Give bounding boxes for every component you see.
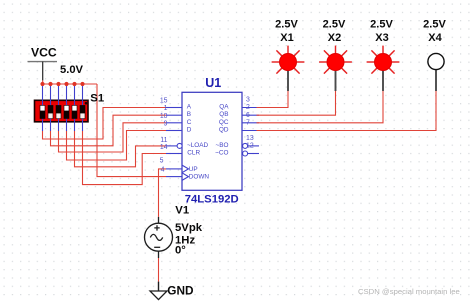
wire VCC symbol to bus (42, 80, 44, 84)
wire VCC bus (43, 83, 98, 85)
svg-text:UP: UP (189, 166, 198, 173)
junction dot col2 on VCC bus (48, 82, 52, 86)
svg-text:2: 2 (246, 104, 250, 111)
svg-text:2.5V: 2.5V (275, 18, 298, 30)
switch S1 pin lead 6 (82, 86, 84, 131)
svg-text:74LS192D: 74LS192D (185, 193, 239, 205)
U1 right pin stub ~BO (248, 145, 259, 147)
~CO output bubble (243, 151, 248, 156)
wire switch col3 to pin C (59, 123, 167, 152)
svg-text:CSDN @special mountain lee: CSDN @special mountain lee (358, 287, 460, 296)
svg-text:CLR: CLR (187, 150, 200, 157)
svg-text:5Vpk: 5Vpk (175, 222, 203, 234)
counter chip U1 body (182, 92, 242, 190)
svg-text:2.5V: 2.5V (423, 18, 446, 30)
source V1 (145, 217, 173, 258)
svg-text:10: 10 (160, 113, 168, 120)
U1 right pin stub QD (242, 130, 259, 132)
svg-text:~CO: ~CO (215, 150, 228, 157)
junction dot col5 on VCC bus (72, 82, 76, 86)
probe X4 (423, 18, 446, 91)
svg-text:4: 4 (161, 166, 165, 173)
probe X2 (319, 18, 352, 91)
wire switch col1 to pin A (43, 108, 167, 140)
~BO output bubble (243, 143, 248, 148)
wire V1 to UP pin (159, 169, 167, 217)
svg-text:7: 7 (246, 120, 250, 127)
svg-text:~BO: ~BO (216, 142, 229, 149)
svg-text:A: A (187, 104, 192, 111)
switch S1 body (35, 100, 89, 122)
svg-text:X3: X3 (375, 32, 388, 44)
svg-text:11: 11 (160, 137, 167, 144)
probe X3 lead (382, 70, 384, 91)
svg-text:5: 5 (160, 157, 164, 164)
switch S1 pin lead 3 (58, 86, 60, 131)
switch S1 pin lead 5 (74, 86, 76, 131)
probe X3 glow rays (367, 46, 400, 74)
U1 right pin stub ~CO (248, 153, 259, 155)
svg-text:12: 12 (246, 143, 254, 150)
svg-text:X4: X4 (428, 32, 442, 44)
probe X3 (367, 18, 400, 91)
DOWN clock arrow (182, 173, 189, 181)
svg-text:V1: V1 (175, 204, 189, 216)
svg-text:2.5V: 2.5V (370, 18, 393, 30)
svg-text:15: 15 (160, 98, 168, 105)
svg-text:2.5V: 2.5V (323, 18, 346, 30)
U1 left pin stub UP (166, 168, 182, 170)
svg-text:GND: GND (167, 283, 194, 297)
switch S1 pin lead 2 (50, 86, 52, 131)
wire QB to probe X2 (257, 91, 336, 116)
svg-text:1: 1 (164, 105, 168, 112)
svg-text:D: D (187, 127, 192, 134)
switch S1 indicator dot (85, 102, 88, 105)
switch S1 slot 1 (40, 105, 46, 119)
junction dot col4 on VCC bus (64, 82, 68, 86)
wire QD to probe X4 (257, 91, 437, 131)
power symbol VCC (28, 46, 58, 81)
U1 right pin stub QA (242, 107, 259, 109)
svg-text:S1: S1 (90, 93, 104, 105)
svg-text:QB: QB (219, 111, 228, 118)
switch S1 slot 4 (64, 105, 70, 119)
svg-text:QC: QC (219, 119, 229, 126)
svg-text:14: 14 (160, 144, 168, 151)
probe X2 lead (335, 70, 337, 91)
svg-text:~LOAD: ~LOAD (187, 142, 209, 149)
switch S1 slot 2 (48, 105, 54, 119)
U1 left pin stub ~LOAD (166, 145, 177, 147)
svg-text:0°: 0° (175, 244, 186, 256)
probe X1 lead (287, 70, 289, 91)
U1 right pin stub QC (242, 122, 259, 124)
svg-text:QA: QA (219, 104, 229, 111)
switch S1 pin lead 4 (66, 86, 68, 131)
ground (158, 282, 160, 291)
U1 right pin stub QB (242, 114, 259, 116)
svg-text:X2: X2 (328, 32, 341, 44)
probe X4 lamp (off) (428, 53, 444, 69)
svg-text:X1: X1 (280, 32, 293, 44)
junction dot col1 on VCC bus (40, 82, 44, 86)
wire switch col4 to pin D (67, 131, 167, 161)
svg-text:6: 6 (246, 112, 250, 119)
wire VCC bus to DOWN pin (97, 84, 166, 177)
UP clock arrow (182, 165, 189, 173)
probe X1 (272, 18, 305, 91)
probe X1 glow rays (272, 46, 305, 74)
junction dot col3 on VCC bus (56, 82, 60, 86)
wire switch col5 to ~LOAD pin (75, 131, 167, 167)
U1 left pin stub D (166, 130, 182, 132)
wire switch col6 to CLR pin (83, 131, 167, 185)
junction dot col6 on VCC bus (80, 82, 84, 86)
switch S1 slot 5 (72, 105, 78, 119)
probe X3 lamp (lit) (375, 54, 392, 71)
U1 left pin stub B (166, 114, 182, 116)
switch S1 pin lead 1 (42, 86, 44, 131)
probe X2 glow rays (319, 46, 352, 74)
probe X1 lamp (lit) (280, 54, 297, 71)
wire switch col2 to pin B (51, 115, 167, 146)
wire QA to probe X1 (257, 91, 289, 108)
svg-text:U1: U1 (205, 76, 221, 90)
switch S1 slot 6 (80, 105, 86, 119)
svg-text:5.0V: 5.0V (60, 64, 84, 76)
U1 left pin stub A (166, 107, 182, 109)
~LOAD input bubble (177, 143, 182, 148)
svg-text:DOWN: DOWN (189, 174, 210, 181)
U1 left pin stub CLR (166, 153, 182, 155)
svg-text:B: B (187, 111, 191, 118)
wire QC to probe X3 (257, 91, 384, 123)
svg-text:13: 13 (246, 135, 254, 142)
switch S1 slot 3 (56, 105, 62, 119)
wire V1 to ground (158, 258, 160, 282)
svg-text:9: 9 (164, 121, 168, 128)
probe X2 lamp (lit) (327, 54, 344, 71)
svg-text:C: C (187, 119, 192, 126)
svg-text:QD: QD (219, 127, 229, 134)
U1 left pin stub C (166, 122, 182, 124)
svg-text:3: 3 (246, 97, 250, 104)
svg-text:VCC: VCC (31, 46, 57, 60)
probe X4 lead (435, 70, 437, 91)
U1 left pin stub DOWN (166, 176, 182, 178)
